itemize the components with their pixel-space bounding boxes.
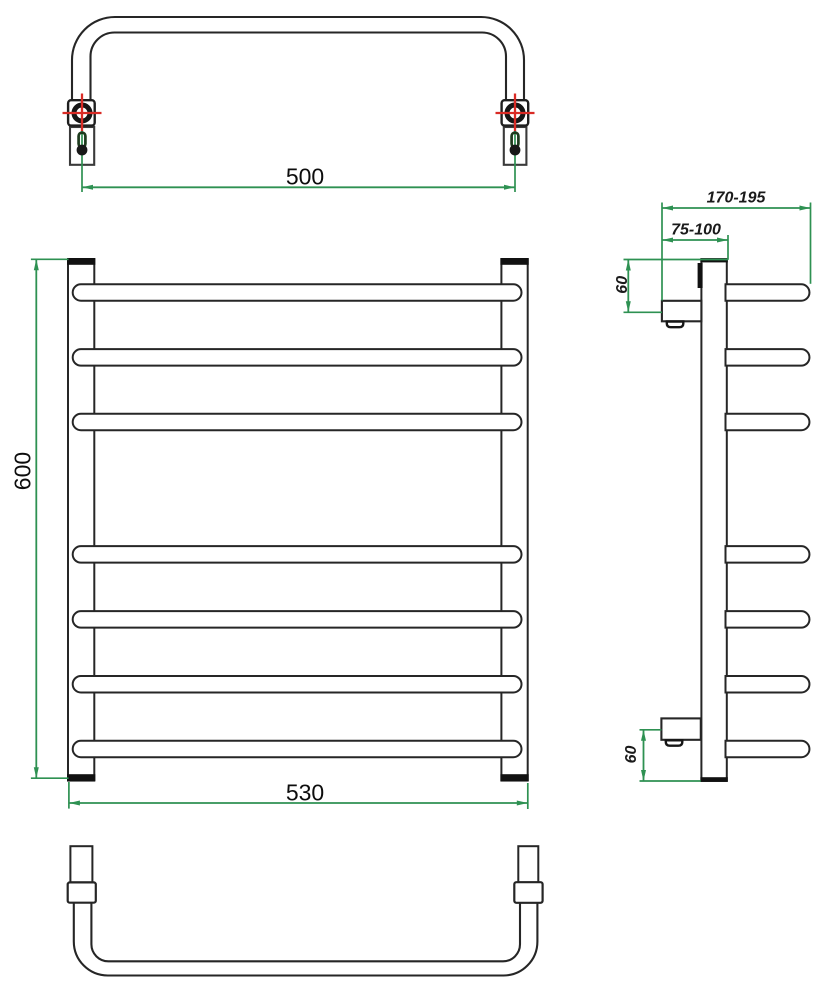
dim top 60 extension lower <box>624 311 663 313</box>
bottom view tube inner outline <box>91 903 520 962</box>
left mounting box <box>68 100 95 125</box>
left post <box>68 259 94 780</box>
side rung 2 <box>726 349 810 366</box>
bottom view left stub <box>70 846 92 882</box>
rung 7 <box>73 741 522 758</box>
right wall-plate (keyhole plate) <box>504 127 527 165</box>
dimension 600 extension top <box>31 258 69 260</box>
dimension 600 top arrow <box>34 259 39 270</box>
left keyhole circle <box>77 145 88 156</box>
red crosshair left <box>63 112 102 114</box>
dim 75-100 line <box>662 239 728 241</box>
side post top thick edge <box>700 258 727 262</box>
rung 3 <box>73 414 522 431</box>
left ring <box>74 105 90 121</box>
dimension 530 left arrow <box>69 801 80 806</box>
side rung 6 <box>726 676 810 693</box>
left post bottom cap <box>67 774 95 781</box>
svg-text:530: 530 <box>286 779 324 805</box>
green extension line left (500 dim) <box>81 128 83 192</box>
left keyhole slot <box>79 133 86 148</box>
svg-text:170-195: 170-195 <box>707 190 767 207</box>
dimension 600 bottom arrow <box>34 767 39 778</box>
side rung 3 <box>726 414 810 431</box>
dimension 500 left arrow <box>82 185 93 190</box>
dimension 530 right arrow <box>517 801 528 806</box>
side top bracket plate <box>662 301 702 322</box>
dim 170-195 right arrow <box>800 206 811 211</box>
rung 6 <box>73 676 522 693</box>
top view tube outer outline <box>72 17 524 101</box>
rung 2 <box>73 349 522 366</box>
svg-text:500: 500 <box>286 164 324 190</box>
dim 75-100 right arrow <box>717 238 728 243</box>
left wall-plate (keyhole plate) <box>70 127 94 165</box>
right mounting box <box>502 100 529 125</box>
dim bottom 60 extension lower <box>640 780 701 782</box>
dim bottom 60 up arrow <box>641 730 646 741</box>
dim bottom 60 down arrow <box>641 770 646 781</box>
bottom view tube outer outline <box>74 903 538 976</box>
side bracket top thick bar <box>698 263 703 288</box>
rung 5 <box>73 611 522 628</box>
svg-text:600: 600 <box>10 452 36 490</box>
dim top 60 up arrow <box>626 260 631 271</box>
right keyhole circle <box>510 145 521 156</box>
right post bottom cap <box>500 774 528 781</box>
red crosshair right <box>496 112 535 114</box>
dim bottom 60 extension upper <box>640 729 662 731</box>
bottom view left collar <box>68 882 96 902</box>
dim 75-100 left arrow <box>662 238 673 243</box>
side bottom bracket plate <box>661 718 700 739</box>
side post <box>701 259 726 781</box>
bottom view right collar <box>514 882 542 903</box>
side rung 7 <box>726 741 810 758</box>
svg-text:60: 60 <box>623 746 640 764</box>
right ring <box>507 105 523 121</box>
right keyhole slot <box>512 133 519 148</box>
dimension 530 extension left <box>68 782 70 809</box>
green extension line right (500 dim) <box>514 128 516 192</box>
svg-text:60: 60 <box>614 276 631 294</box>
side rung 1 <box>726 284 810 301</box>
dimension 530 line <box>69 802 528 804</box>
dimension 500 line <box>82 186 515 188</box>
side bottom bracket nub <box>666 740 683 745</box>
side rung 4 <box>726 546 810 563</box>
rung 4 <box>73 546 522 563</box>
dim top 60 down arrow <box>626 301 631 312</box>
rung 1 <box>73 284 522 301</box>
dimension 600 line <box>35 259 37 778</box>
left post top cap <box>67 258 95 265</box>
dim top 60 line <box>627 260 629 313</box>
dim bottom 60 line <box>643 730 645 781</box>
dim top 60 extension upper <box>624 259 728 261</box>
dim 170-195 left extension <box>661 203 663 301</box>
side post bottom thick edge <box>700 777 727 781</box>
bottom view right stub <box>518 846 538 882</box>
side rung 5 <box>726 611 810 628</box>
right post <box>501 259 527 780</box>
right post top cap <box>500 258 528 265</box>
dim 75-100 right extension <box>727 235 729 260</box>
dimension 600 extension bottom <box>31 777 69 779</box>
dim 170-195 right extension <box>810 203 812 284</box>
dimension 530 extension right <box>527 783 529 809</box>
dimension 500 right arrow <box>504 185 515 190</box>
svg-text:75-100: 75-100 <box>671 222 721 239</box>
dim 170-195 left arrow <box>662 206 673 211</box>
top view tube inner outline <box>91 33 507 102</box>
side top bracket nub <box>667 322 684 328</box>
dim 170-195 line <box>662 207 811 209</box>
